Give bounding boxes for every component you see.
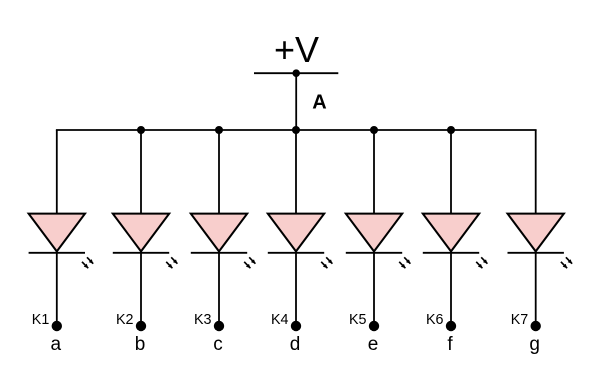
LED a (cathode K1) <box>29 214 94 269</box>
junction anode bus x=141 <box>137 126 145 134</box>
svg-text:a: a <box>51 334 62 355</box>
svg-text:g: g <box>529 334 540 355</box>
wire bus to LED c anode <box>218 130 220 214</box>
svg-text:d: d <box>290 334 301 355</box>
junction anode bus x=219 <box>215 126 223 134</box>
LED f (cathode K6) <box>423 214 488 269</box>
svg-text:K1: K1 <box>32 312 50 328</box>
wire LED e cathode to terminal K5 <box>373 251 375 322</box>
LED g (cathode K7) <box>508 214 573 269</box>
junction anode bus x=451 <box>447 126 455 134</box>
wire bus to LED f anode <box>450 130 452 214</box>
junction on power rail <box>292 69 300 77</box>
svg-text:+V: +V <box>274 29 319 70</box>
wire LED d cathode to terminal K4 <box>295 251 297 322</box>
svg-text:A: A <box>312 92 326 114</box>
svg-text:b: b <box>135 334 146 355</box>
terminal K6 <box>446 321 456 331</box>
terminal K4 <box>291 321 301 331</box>
wire bus to LED g anode <box>535 130 537 214</box>
svg-text:c: c <box>213 334 223 355</box>
junction anode bus x=374 <box>370 126 378 134</box>
svg-text:K2: K2 <box>116 312 134 328</box>
LED e (cathode K5) <box>346 214 411 269</box>
terminal K3 <box>214 321 224 331</box>
LED b (cathode K2) <box>113 214 178 269</box>
svg-text:K4: K4 <box>271 312 289 328</box>
svg-text:f: f <box>447 334 453 355</box>
LED d (cathode K4) <box>268 214 333 269</box>
power rail <box>254 72 338 74</box>
svg-text:K5: K5 <box>349 312 367 328</box>
wire LED a cathode to terminal K1 <box>56 251 58 322</box>
wire LED g cathode to terminal K7 <box>535 251 537 322</box>
wire bus to LED e anode <box>373 130 375 214</box>
junction anode bus x=296 <box>292 126 300 134</box>
svg-text:K3: K3 <box>194 312 212 328</box>
wire LED f cathode to terminal K6 <box>450 251 452 322</box>
terminal K2 <box>136 321 146 331</box>
wire +V to node A <box>295 73 297 130</box>
terminal K7 <box>531 321 541 331</box>
wire bus to LED b anode <box>140 130 142 214</box>
LED c (cathode K3) <box>191 214 256 269</box>
svg-text:K7: K7 <box>511 312 529 328</box>
wire LED b cathode to terminal K2 <box>140 251 142 322</box>
svg-text:e: e <box>368 334 379 355</box>
wire bus to LED a anode <box>56 130 58 214</box>
wire LED c cathode to terminal K3 <box>218 251 220 322</box>
wire bus to LED d anode <box>295 130 297 214</box>
anode bus wire <box>56 129 537 131</box>
svg-text:K6: K6 <box>426 312 444 328</box>
terminal K1 <box>52 321 62 331</box>
terminal K5 <box>369 321 379 331</box>
